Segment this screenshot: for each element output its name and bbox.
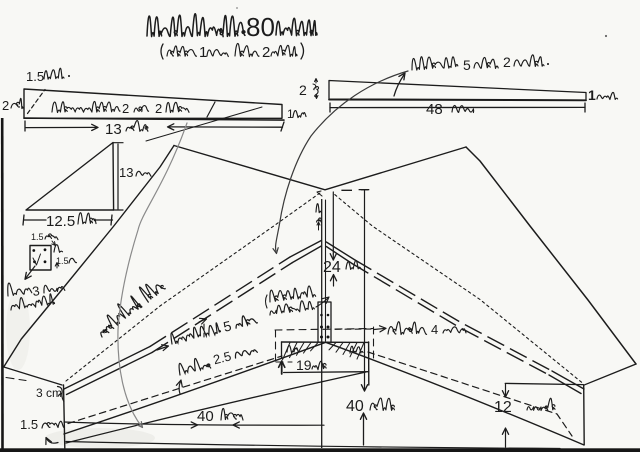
svg-text:48: 48 [426, 101, 443, 118]
svg-text:1.5: 1.5 [26, 69, 44, 84]
svg-text:19: 19 [296, 357, 312, 373]
svg-text:1: 1 [588, 87, 596, 103]
svg-text:12.5: 12.5 [46, 213, 75, 230]
svg-text:2: 2 [262, 44, 270, 61]
svg-text:2: 2 [2, 98, 9, 113]
svg-text:3 cm: 3 cm [36, 386, 62, 400]
svg-text:80: 80 [246, 12, 275, 42]
svg-text:2: 2 [299, 82, 307, 98]
svg-text:5: 5 [463, 57, 471, 73]
svg-text:40: 40 [346, 398, 364, 415]
svg-text:12: 12 [494, 399, 512, 416]
svg-text:13: 13 [105, 121, 122, 138]
svg-text:1.5: 1.5 [20, 417, 38, 432]
svg-text:1: 1 [287, 107, 294, 121]
svg-text:1: 1 [199, 44, 207, 61]
svg-text:4: 4 [431, 322, 438, 337]
svg-text:13: 13 [119, 165, 133, 180]
svg-text:2: 2 [155, 101, 162, 116]
svg-text:2: 2 [503, 54, 511, 70]
svg-text:40: 40 [197, 408, 214, 425]
svg-text:1.5: 1.5 [31, 232, 44, 242]
svg-text:2: 2 [122, 101, 129, 116]
